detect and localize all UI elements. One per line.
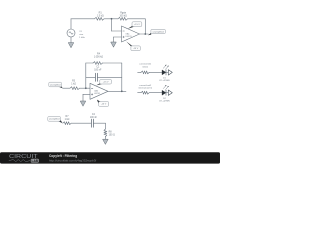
svg-text:http://circuitlab.com/c4ag352s: http://circuitlab.com/c4ag352supb3f bbox=[49, 159, 96, 163]
output junction node C bbox=[121, 90, 123, 92]
wire: top rail to R1 bbox=[71, 18, 95, 20]
wire: feedback vertical down to output bbox=[144, 19, 146, 34]
net flag: input (middle stage) bbox=[58, 86, 63, 89]
wire: R5 to D1 bbox=[149, 71, 162, 73]
svg-text:-15 V: -15 V bbox=[133, 48, 139, 50]
wire: node A down to inverting input bbox=[111, 19, 113, 31]
wire: feedback right vertical bbox=[121, 63, 123, 91]
svg-text:+15 V: +15 V bbox=[103, 81, 109, 83]
svg-text:1 kΩ: 1 kΩ bbox=[71, 83, 76, 85]
wire: source up to top rail bbox=[70, 19, 72, 29]
svg-text:unamplified: unamplified bbox=[50, 84, 61, 86]
svg-text:100 Ω: 100 Ω bbox=[109, 134, 115, 136]
wire: non-inverting input to ground bbox=[114, 36, 122, 38]
svg-text:1.056 kΩ: 1.056 kΩ bbox=[94, 56, 104, 58]
svg-text:1.5 kΩ: 1.5 kΩ bbox=[97, 14, 104, 17]
wire: source to ground bbox=[70, 37, 72, 43]
capacitor C1 (feedback) bbox=[94, 73, 96, 81]
output junction bbox=[144, 33, 146, 35]
+15V supply flag (OA1 top) bbox=[128, 26, 135, 29]
svg-text:LM741: LM741 bbox=[94, 93, 101, 95]
+15V supply flag (OA2 top) bbox=[96, 83, 102, 85]
ground (op-amp OA1 + input) bbox=[111, 42, 117, 47]
wire: D2 to port bbox=[166, 92, 168, 94]
svg-text:LTL-4296N: LTL-4296N bbox=[159, 80, 170, 82]
svg-text:LAB: LAB bbox=[32, 159, 39, 163]
svg-text:unamplified: unamplified bbox=[49, 119, 60, 121]
wire: stub into R6 bbox=[138, 92, 141, 94]
output port arrow 2 bbox=[168, 90, 172, 95]
resistor R2 (feedback) bbox=[118, 17, 128, 20]
resistor R8 (vertical) bbox=[104, 129, 107, 137]
wire: OA2 output bbox=[108, 90, 126, 92]
resistor R1 bbox=[95, 17, 105, 20]
svg-text:1 kΩ: 1 kΩ bbox=[65, 119, 70, 121]
wire: R8 to ground bbox=[104, 137, 106, 140]
wire: OA1 output bbox=[140, 33, 149, 35]
LED D1 bbox=[162, 70, 166, 75]
resistor R6 (current-limit2) bbox=[141, 91, 149, 94]
svg-text:100 nF: 100 nF bbox=[94, 70, 102, 72]
svg-text:current-limit1: current-limit1 bbox=[139, 63, 152, 66]
svg-text:Copyleft : Filtering: Copyleft : Filtering bbox=[49, 154, 77, 158]
LED D2 bbox=[162, 90, 166, 95]
wire: feedback top rail left bbox=[86, 62, 93, 64]
op-amp OA2 bbox=[90, 83, 108, 99]
CircuitLab logo: LAB badge bbox=[31, 159, 39, 163]
wire: D1 to port bbox=[166, 71, 168, 73]
wire: stub into R5 bbox=[138, 71, 141, 73]
-15V supply flag (OA1 bottom) bbox=[126, 41, 133, 46]
net flag: input (bottom stage) bbox=[58, 120, 63, 123]
svg-text:+15 V: +15 V bbox=[134, 24, 140, 26]
wire: non-inverting input to ground bbox=[83, 93, 90, 95]
capacitor C2 bbox=[90, 119, 92, 127]
wire: cap rail right bbox=[97, 76, 121, 78]
wire: R6 to D2 bbox=[149, 92, 162, 94]
svg-text:Rgain: Rgain bbox=[120, 12, 127, 14]
wire: feedback left vertical bbox=[85, 63, 87, 88]
bottom brand bar bbox=[0, 152, 220, 163]
svg-text:1 kHz: 1 kHz bbox=[79, 37, 85, 39]
svg-text:current-limit2: current-limit2 bbox=[139, 84, 152, 87]
resistor R4 (feedback) bbox=[93, 62, 103, 65]
resistor R3 bbox=[70, 87, 80, 90]
output port arrow 1 bbox=[168, 70, 172, 75]
ground (bottom RC) bbox=[103, 139, 109, 144]
ground (source V1) bbox=[68, 43, 74, 48]
wire: corner down to R8 bbox=[104, 123, 106, 129]
svg-text:unamplified: unamplified bbox=[153, 31, 165, 33]
svg-text:LM741: LM741 bbox=[126, 36, 133, 38]
wire: C2 to corner bbox=[93, 122, 105, 124]
svg-text:minimum-brt Ω: minimum-brt Ω bbox=[138, 87, 152, 90]
svg-text:100 kΩ: 100 kΩ bbox=[120, 15, 128, 17]
svg-text:100 Ω: 100 Ω bbox=[142, 67, 148, 69]
ground (op-amp OA2 + input) bbox=[80, 101, 86, 106]
resistor R5 (current-limit1) bbox=[141, 71, 149, 74]
node B junction bbox=[85, 87, 87, 89]
voltage source V1 bbox=[67, 29, 75, 37]
node A junction bbox=[111, 18, 113, 20]
svg-text:100 nF: 100 nF bbox=[90, 117, 98, 119]
wire: R3 to inverting input bbox=[80, 87, 91, 89]
wire: R1 to node A bbox=[104, 18, 118, 20]
svg-text:LTL-4296N: LTL-4296N bbox=[159, 101, 170, 103]
net flag: unamplified (OA1 output) bbox=[148, 33, 151, 36]
CircuitLab logo: resistor zigzag bbox=[9, 160, 30, 162]
svg-text:-15 V: -15 V bbox=[101, 104, 107, 106]
wire: cap rail left bbox=[86, 76, 96, 78]
wire: R2 to feedback corner bbox=[128, 18, 146, 20]
wire: feedback top rail right bbox=[103, 62, 122, 64]
resistor R7 bbox=[63, 122, 71, 125]
wire: input to R3 bbox=[63, 87, 70, 89]
op-amp OA1 bbox=[122, 26, 140, 42]
-15V supply flag (OA2 bottom) bbox=[97, 100, 101, 104]
wire: R7 to C2 bbox=[71, 122, 91, 124]
